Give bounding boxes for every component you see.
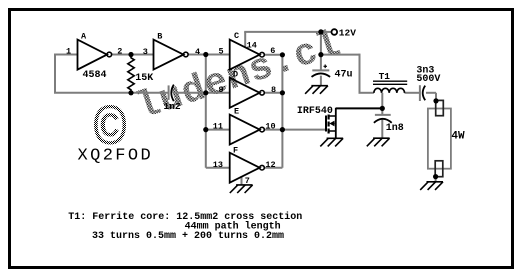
svg-text:3: 3 [143, 47, 148, 57]
svg-text:E: E [234, 106, 239, 116]
junction E output gate node [280, 127, 285, 132]
wire: lamp top drop [435, 93, 437, 101]
svg-text:13: 13 [213, 160, 223, 170]
wire: rail to T1 horizontal [321, 54, 360, 56]
svg-text:9: 9 [218, 85, 223, 95]
inverter U1A [78, 31, 112, 69]
svg-text:D: D [233, 70, 238, 80]
junction node 4 [203, 52, 208, 57]
svg-text:12V: 12V [339, 27, 356, 38]
transistor Q1 IRF540 [297, 106, 336, 138]
wire: to T1 winding [359, 92, 374, 94]
ground for Q1 source [320, 138, 343, 146]
wire: E output stub [264, 129, 282, 131]
ground for lamp [420, 182, 443, 190]
wire: F output stub [264, 167, 282, 169]
wire: drain to tap node [336, 107, 383, 109]
svg-text:C: C [234, 31, 239, 41]
svg-text:6: 6 [270, 46, 275, 56]
junction 12V rail [318, 29, 323, 34]
ground for 47u [305, 86, 328, 94]
wire: lamp bottom to ground [435, 177, 437, 182]
inverter U1E [230, 106, 265, 144]
svg-text:4584: 4584 [83, 70, 107, 81]
junction node 2 [128, 52, 133, 57]
wire: C output stub [264, 54, 282, 56]
inverter U1F [230, 145, 265, 182]
svg-text:10: 10 [265, 122, 275, 132]
wire: pin 14 riser [244, 32, 246, 48]
wire: input bus vertical [205, 55, 207, 168]
wire: input to inverter A [55, 54, 78, 56]
junction 47u node [318, 52, 323, 57]
wire: feedback bottom to 1n2 [54, 92, 168, 94]
junction node 11 [203, 127, 208, 132]
wire: D output stub [264, 92, 282, 94]
ground for 1n8 [367, 138, 390, 146]
capacitor C2 47u electrolytic [312, 65, 353, 81]
wire: gate wire to Q1 [282, 129, 325, 131]
capacitor C3 1n8 [374, 115, 404, 134]
svg-text:1n2: 1n2 [164, 101, 181, 112]
wire: A output to B input [112, 54, 154, 56]
wire: E input [206, 129, 230, 131]
transformer T1 [373, 71, 407, 93]
wire: 1n8 top lead [381, 108, 383, 114]
wire: F input [206, 167, 230, 169]
wire: stub to 12V terminal [321, 31, 332, 33]
inverter U1B [154, 32, 189, 70]
svg-text:12: 12 [265, 160, 275, 170]
wire: 47u top lead [320, 55, 322, 71]
12V supply terminal [332, 27, 357, 38]
svg-text:4: 4 [195, 47, 200, 57]
wire: 1n8 bottom lead [381, 120, 383, 139]
wire: 47u bottom lead [320, 76, 322, 86]
wire: T1 left riser [359, 54, 361, 93]
capacitor C1 1n2 [164, 85, 181, 113]
svg-text:33 turns 0.5mm + 200 turns 0.2: 33 turns 0.5mm + 200 turns 0.2mm [92, 231, 284, 242]
inverter U1C [230, 31, 265, 70]
junction drain tap node [380, 106, 385, 111]
wire: B output to C input [188, 54, 230, 56]
svg-text:T1: T1 [379, 71, 391, 82]
junction D output [280, 90, 285, 95]
capacitor C4 3n3 500V [416, 65, 440, 101]
junction lamp bottom [433, 174, 438, 179]
svg-text:B: B [157, 32, 162, 42]
svg-text:500V: 500V [416, 74, 440, 85]
wire: T1 centre tap [381, 93, 383, 109]
svg-text:A: A [81, 31, 87, 41]
svg-text:5: 5 [218, 47, 223, 57]
svg-text:8: 8 [271, 85, 276, 95]
wire: output bus vertical [281, 55, 283, 168]
lamp 4W fluorescent tube [428, 100, 465, 176]
svg-text:F: F [233, 145, 238, 155]
junction node 9 [203, 90, 208, 95]
svg-text:15K: 15K [135, 73, 153, 84]
svg-text:2: 2 [117, 47, 122, 57]
svg-text:1n8: 1n8 [386, 123, 404, 134]
inverter U1D [230, 70, 265, 108]
wire: left feedback vertical [54, 54, 56, 93]
resistor R1 15K [128, 55, 154, 93]
svg-text:4W: 4W [451, 130, 465, 142]
junction C output corner [280, 52, 285, 57]
junction lamp top [433, 98, 438, 103]
svg-text:14: 14 [247, 41, 257, 51]
wire: 12V rail [244, 31, 321, 33]
wire: pin 7 to ground [241, 176, 243, 185]
wire: T1 to 3n3 [405, 92, 420, 94]
junction 15K bottom [128, 90, 133, 95]
ground pin 7 [230, 185, 253, 193]
wire: 12V rail drop [320, 32, 322, 55]
svg-text:11: 11 [213, 122, 223, 132]
svg-text:47u: 47u [335, 70, 353, 81]
svg-text:XQ2FOD: XQ2FOD [78, 147, 154, 166]
wire: 1n2 to node 9 and D input [174, 92, 230, 94]
svg-text:1: 1 [66, 47, 71, 57]
wire: 3n3 to lamp [426, 92, 436, 94]
